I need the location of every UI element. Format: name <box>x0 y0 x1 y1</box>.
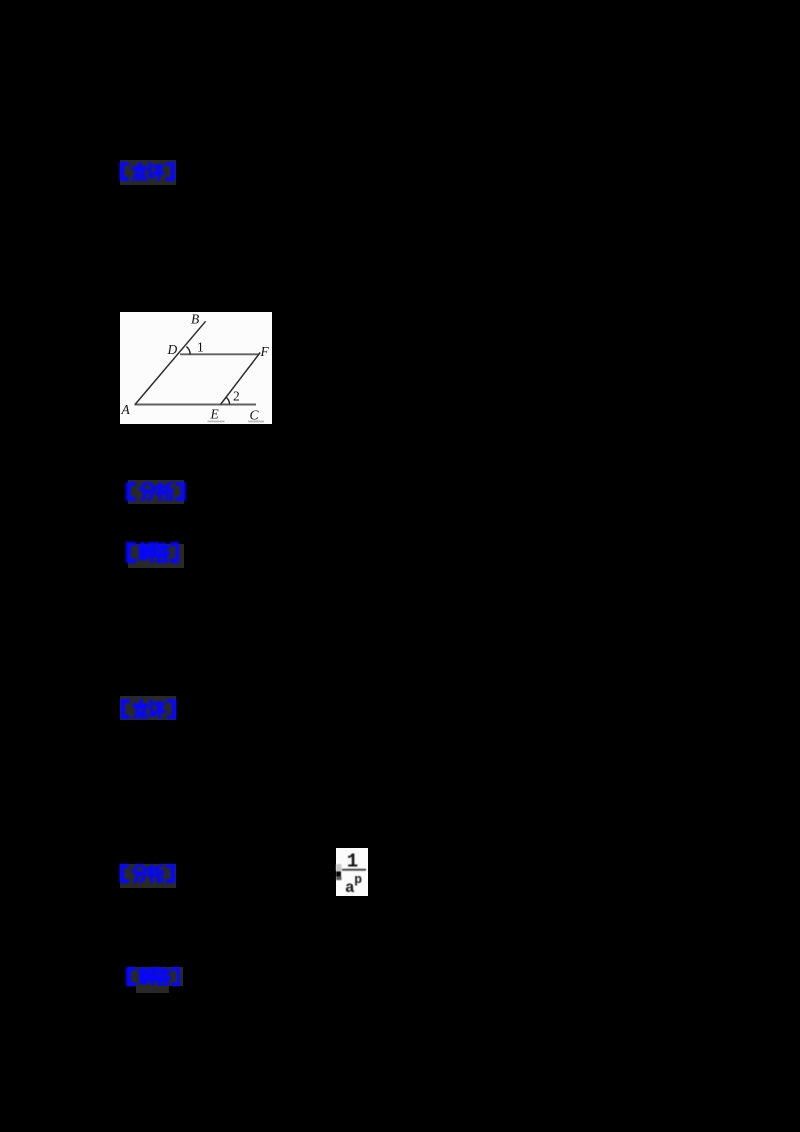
label L4 dianping <box>120 696 176 720</box>
underline under E <box>207 421 224 423</box>
label L5 fenxi <box>120 864 176 889</box>
svg-text:p: p <box>354 872 362 887</box>
svg-text:F: F <box>259 344 269 359</box>
wire top line D-F <box>180 353 259 355</box>
angle arc 1 at D <box>186 347 190 355</box>
geometry figure box <box>120 312 272 424</box>
wire segment E-F <box>220 353 260 405</box>
label L3 jieda <box>128 544 184 569</box>
wire ray A-D-B <box>135 321 206 404</box>
svg-text:C: C <box>249 407 259 422</box>
svg-text:1: 1 <box>197 340 204 355</box>
label L2 fenxi <box>128 480 184 504</box>
svg-text:A: A <box>120 402 130 417</box>
svg-text:D: D <box>166 342 177 357</box>
svg-text:B: B <box>191 312 199 327</box>
underline under C <box>248 421 264 423</box>
fraction bar <box>342 869 366 871</box>
label L6 jieda <box>128 967 183 986</box>
angle arc 2 at E <box>226 397 230 404</box>
wire bottom line A-E-C <box>134 403 255 405</box>
fraction box 1/a^p <box>336 848 368 896</box>
svg-text:E: E <box>209 406 219 421</box>
left edge artifacts <box>336 864 342 871</box>
label L1 dianping <box>120 160 176 185</box>
svg-text:2: 2 <box>233 388 240 403</box>
label L6 residue <box>136 986 169 993</box>
